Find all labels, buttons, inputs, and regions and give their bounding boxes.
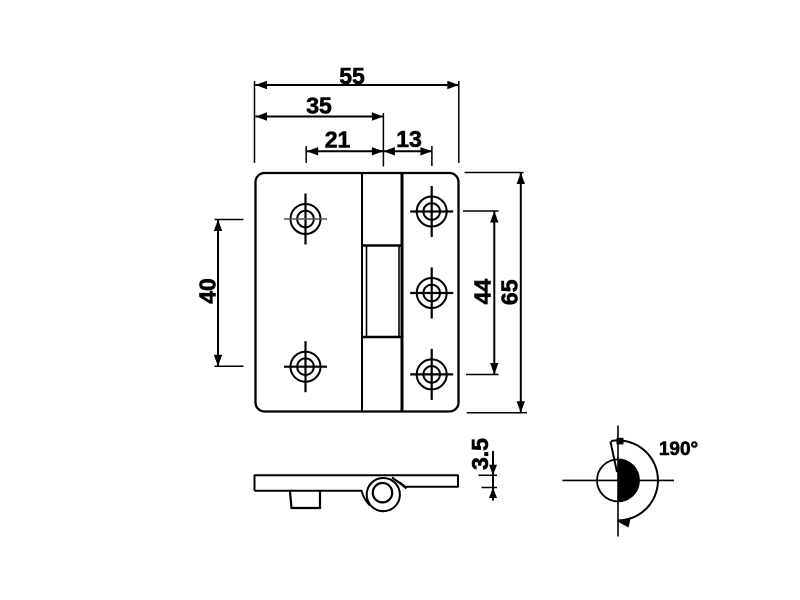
- knuckle right line: [401, 174, 404, 411]
- svg-text:44: 44: [470, 279, 496, 305]
- rotation symbol arc: [611, 440, 658, 520]
- rotation symbol leaf line: [610, 441, 617, 472]
- top view plate outline: [256, 173, 459, 412]
- svg-text:3.5: 3.5: [467, 438, 493, 470]
- rotation symbol start square: [617, 438, 624, 445]
- side view left edge: [254, 475, 256, 491]
- knuckle middle box left: [366, 247, 368, 337]
- dimension 35: [256, 112, 384, 166]
- dimension 55: [255, 81, 459, 163]
- knuckle divider bottom: [362, 336, 402, 338]
- hole top-right: [410, 186, 453, 237]
- side view leaf top line: [255, 474, 459, 476]
- side view tab: [290, 492, 320, 509]
- hole top-left: [284, 194, 327, 245]
- svg-text:55: 55: [339, 63, 365, 89]
- rotation symbol arc arrowhead: [618, 517, 632, 528]
- svg-text:65: 65: [497, 279, 523, 305]
- svg-text:190°: 190°: [659, 439, 698, 460]
- rotation symbol vertical centerline: [617, 426, 619, 537]
- rotation symbol horizontal centerline: [562, 479, 674, 481]
- dimension 3.5: [479, 451, 498, 501]
- dimension 65: [465, 173, 528, 413]
- svg-text:13: 13: [396, 126, 422, 152]
- side view neck inner: [397, 481, 405, 486]
- rotation symbol circle: [597, 459, 639, 501]
- side view knuckle outer circle: [367, 478, 400, 511]
- rotation symbol filled half disk: [618, 459, 639, 501]
- dimension 21: [306, 146, 383, 163]
- knuckle middle box right: [398, 247, 400, 337]
- svg-text:21: 21: [325, 127, 351, 153]
- dimension 44: [463, 211, 499, 375]
- side view right edge: [457, 475, 459, 488]
- side view left leaf bottom line: [255, 491, 371, 506]
- knuckle divider top: [362, 244, 402, 246]
- hole bottom-right: [410, 349, 453, 400]
- side view neck outer: [392, 478, 407, 489]
- side view knuckle inner circle: [373, 483, 392, 502]
- svg-text:40: 40: [195, 278, 221, 304]
- hole bottom-left: [284, 341, 327, 392]
- dimension 40: [214, 220, 244, 367]
- hole middle-right: [410, 268, 453, 319]
- dimension 13: [383, 146, 432, 166]
- side view right bar bottom: [405, 486, 459, 488]
- svg-text:35: 35: [306, 93, 332, 119]
- knuckle left line: [361, 174, 363, 411]
